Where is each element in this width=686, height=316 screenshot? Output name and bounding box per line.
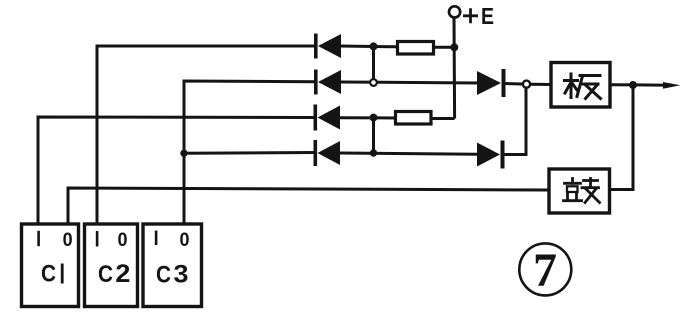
wire board box output to arrow [611, 83, 672, 87]
+E supply terminal [449, 6, 460, 17]
diode D3 [314, 105, 341, 131]
C3 "1" label [155, 231, 158, 246]
svg-text:E: E [481, 3, 494, 29]
counter C2 box [85, 224, 138, 307]
svg-text:0: 0 [180, 230, 190, 251]
node A (AND1 output, row1) [370, 42, 378, 50]
node E (+E rail to R1) [450, 43, 458, 51]
diode D1 [314, 34, 341, 59]
wire OR node to board box [531, 83, 551, 86]
+E label plus sign [463, 8, 478, 23]
wire output node down to drum output [611, 85, 633, 190]
drum character strokes [564, 179, 600, 203]
node G (OR junction, open) [523, 81, 530, 88]
board character strokes [565, 74, 601, 99]
svg-text:C: C [41, 261, 56, 288]
node B (row2 junction, open) [370, 79, 377, 86]
wire row4 from C3 node to diode D4 [184, 151, 315, 155]
C1 "1" label [37, 231, 40, 246]
counter C3 box [143, 224, 202, 307]
wire row1 diode D1 to resistor R1 [340, 45, 396, 49]
diode D2 [314, 70, 341, 95]
counter C1 box [22, 224, 79, 307]
diode D5 [477, 69, 506, 97]
svg-text:3: 3 [174, 261, 189, 289]
node F (C3 "0" branch to row4) [180, 150, 187, 157]
node D (row4 junction) [370, 149, 377, 156]
diode D6 [477, 141, 505, 169]
wire C1 "1" up to row3 [38, 117, 315, 223]
wire +E rail vertical [453, 17, 457, 119]
wire C1 "0" to drum box [68, 188, 548, 223]
wire AND2 junction vertical [372, 118, 375, 153]
wire row4 diode D4 to diode D6 [340, 153, 478, 154]
wire D6 cathode up to OR node [504, 84, 526, 154]
resistor R1 [398, 42, 434, 55]
wire C3 "0" up to row2 [184, 81, 315, 223]
svg-text:C: C [156, 262, 171, 289]
node C (AND2 output, row3) [370, 114, 378, 122]
diode D4 [314, 140, 341, 166]
svg-text:0: 0 [63, 230, 73, 251]
svg-text:2: 2 [115, 260, 130, 288]
output arrow [663, 82, 681, 89]
C2 "1" label [96, 231, 99, 247]
wire AND1 junction vertical [372, 46, 375, 82]
svg-text:7: 7 [533, 244, 557, 297]
resistor R2 [396, 112, 432, 125]
wire row2 diode D2 to diode D5 [340, 82, 478, 83]
svg-text:C: C [98, 261, 113, 288]
node H (output junction) [629, 81, 637, 89]
wire D5 cathode to OR node [505, 82, 522, 86]
svg-text:0: 0 [118, 230, 128, 251]
wire R1 right lead to +E rail [435, 46, 454, 49]
figure number circle 7 [519, 243, 571, 295]
drum box (gu) [549, 169, 610, 213]
wire R2 right lead to +E rail bottom [433, 117, 455, 120]
board box (ban) [551, 63, 610, 108]
wire row3 diode D3 to resistor R2 [340, 116, 395, 119]
wire C2 "1" up to row1 [97, 46, 315, 223]
